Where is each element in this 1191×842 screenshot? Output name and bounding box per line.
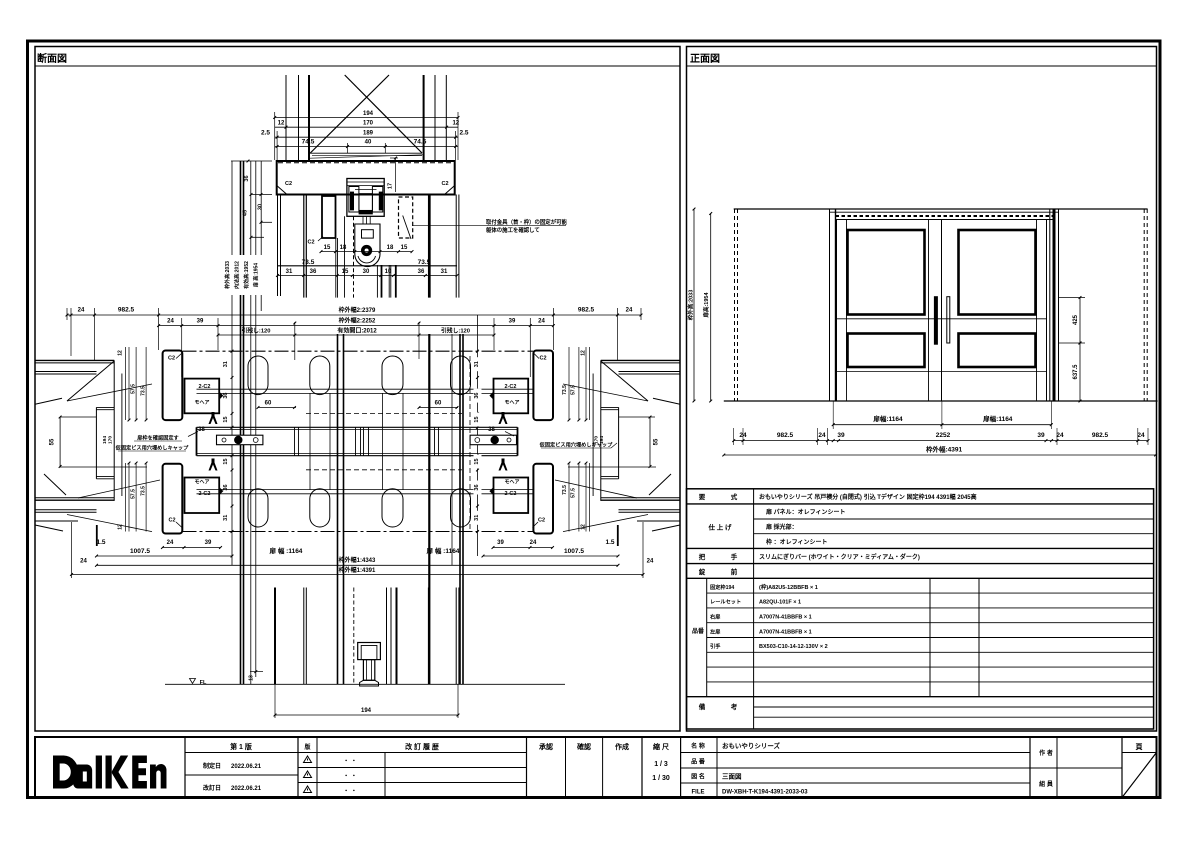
right door upper window bbox=[959, 230, 1036, 315]
svg-text:31: 31 bbox=[286, 269, 293, 275]
svg-text:扉 高:1954: 扉 高:1954 bbox=[253, 263, 260, 288]
right panel (front view) frame bbox=[687, 47, 1157, 732]
svg-text:1.5: 1.5 bbox=[605, 539, 614, 546]
pedestrian glyphs bbox=[209, 412, 218, 424]
svg-text:2.5: 2.5 bbox=[261, 129, 270, 136]
svg-text:有効開口:2012: 有効開口:2012 bbox=[337, 326, 377, 334]
left jamb bbox=[829, 209, 831, 401]
svg-text:枠 ：オレフィンシート: 枠 ：オレフィンシート bbox=[766, 538, 828, 546]
svg-text:982.5: 982.5 bbox=[118, 307, 135, 314]
svg-text:正面図: 正面図 bbox=[690, 53, 720, 65]
svg-text:C2: C2 bbox=[539, 356, 546, 362]
svg-text:170: 170 bbox=[363, 121, 374, 127]
dim 60 right bbox=[419, 407, 458, 409]
svg-text:12: 12 bbox=[452, 121, 459, 127]
svg-text:モヘア: モヘア bbox=[194, 400, 209, 406]
wall studs above head bbox=[285, 75, 287, 161]
svg-text:18: 18 bbox=[387, 245, 394, 251]
svg-text:スリムにぎりバー (ホワイト・クリア・ミディアム・ダーク): スリムにぎりバー (ホワイト・クリア・ミディアム・ダーク) bbox=[759, 553, 920, 561]
svg-text:55: 55 bbox=[50, 438, 56, 445]
svg-text:図 名: 図 名 bbox=[691, 773, 705, 781]
svg-text:17: 17 bbox=[388, 183, 394, 189]
dim 13 bbox=[250, 671, 263, 673]
pocket frame C2 lower-left bbox=[163, 464, 183, 534]
svg-text:57.5: 57.5 bbox=[131, 384, 137, 394]
name/file rows bbox=[681, 752, 1030, 754]
pocket frame C2 upper-left bbox=[163, 351, 183, 421]
svg-text:引残し:120: 引残し:120 bbox=[441, 326, 470, 334]
svg-text:扉 採光部：: 扉 採光部： bbox=[765, 523, 798, 531]
hidden door edges dashed bbox=[306, 413, 462, 415]
chain centerlines bbox=[183, 350, 534, 352]
long verticals center/right bbox=[337, 334, 339, 684]
pocket frame 2-C2 upper-left bbox=[185, 379, 220, 414]
svg-text:枠外幅1:4391: 枠外幅1:4391 bbox=[339, 566, 376, 574]
svg-text:36: 36 bbox=[310, 269, 317, 275]
svg-text:・ ・: ・ ・ bbox=[343, 759, 357, 765]
svg-text:名 称: 名 称 bbox=[691, 742, 705, 750]
svg-text:固定枠194: 固定枠194 bbox=[710, 583, 734, 591]
svg-text:170: 170 bbox=[108, 436, 114, 444]
svg-text:24: 24 bbox=[626, 308, 633, 314]
svg-text:74.5: 74.5 bbox=[414, 139, 427, 146]
svg-text:A82QU-101F × 1: A82QU-101F × 1 bbox=[759, 600, 801, 606]
pocket frame 2-C2 lower-right bbox=[494, 478, 529, 514]
door width dims 1164 bbox=[833, 424, 1051, 426]
svg-text:12: 12 bbox=[581, 524, 587, 530]
dim 1007.5 row bbox=[97, 555, 233, 557]
left height dim chain bbox=[231, 160, 272, 162]
svg-text:C2: C2 bbox=[168, 518, 175, 524]
svg-text:・ ・: ・ ・ bbox=[343, 774, 357, 780]
svg-text:57.5: 57.5 bbox=[571, 385, 577, 395]
svg-text:扉枠を確認固定す: 扉枠を確認固定す bbox=[137, 434, 179, 442]
svg-text:仕 上 げ: 仕 上 げ bbox=[707, 523, 732, 532]
capsules (roller cutouts) upper bbox=[248, 356, 268, 395]
svg-text:24: 24 bbox=[80, 559, 87, 565]
dim 40 / 74.5 bbox=[275, 146, 458, 148]
height dim 1954 bbox=[710, 214, 712, 402]
svg-text:36: 36 bbox=[223, 393, 229, 399]
svg-text:60: 60 bbox=[265, 401, 272, 407]
left pocket end bbox=[113, 360, 115, 501]
dim 17 bbox=[390, 157, 398, 159]
svg-text:手: 手 bbox=[731, 552, 738, 561]
svg-text:C2: C2 bbox=[285, 181, 292, 187]
wall frame dims right (12/57.5/73.5) bbox=[568, 347, 570, 420]
svg-text:189: 189 bbox=[363, 130, 374, 136]
svg-text:982.5: 982.5 bbox=[1092, 432, 1109, 439]
svg-text:24: 24 bbox=[167, 318, 174, 324]
svg-text:15: 15 bbox=[474, 416, 480, 422]
right wall lines bbox=[601, 359, 680, 361]
svg-text:36: 36 bbox=[474, 484, 480, 490]
svg-text:FL: FL bbox=[200, 680, 207, 686]
svg-text:断面図: 断面図 bbox=[37, 52, 67, 65]
svg-text:C2: C2 bbox=[441, 181, 448, 187]
svg-text:15: 15 bbox=[324, 245, 331, 251]
left wall lines bbox=[35, 359, 114, 361]
svg-text:引残し:120: 引残し:120 bbox=[242, 326, 271, 334]
svg-text:12: 12 bbox=[118, 524, 124, 530]
left door lower window bbox=[848, 334, 925, 368]
dim 4391 bbox=[72, 574, 644, 576]
svg-text:モヘア: モヘア bbox=[504, 480, 519, 486]
svg-text:73.5: 73.5 bbox=[141, 486, 147, 496]
svg-text:引手: 引手 bbox=[710, 642, 721, 650]
svg-text:74.5: 74.5 bbox=[302, 139, 315, 146]
right frame member (dashed) bbox=[399, 197, 413, 238]
svg-text:15: 15 bbox=[401, 245, 408, 251]
svg-text:40: 40 bbox=[365, 140, 372, 146]
svg-text:194: 194 bbox=[102, 436, 108, 444]
svg-text:60: 60 bbox=[435, 401, 442, 407]
door stiles in band bbox=[294, 427, 296, 455]
svg-text:考: 考 bbox=[731, 702, 738, 711]
svg-text:39: 39 bbox=[837, 432, 845, 439]
svg-text:作 者: 作 者 bbox=[1039, 749, 1053, 757]
svg-text:2022.06.21: 2022.06.21 bbox=[231, 786, 262, 792]
svg-text:縮 尺: 縮 尺 bbox=[653, 742, 669, 751]
floor line bbox=[724, 400, 1158, 402]
svg-text:24: 24 bbox=[78, 308, 85, 314]
svg-text:枠外高:2033: 枠外高:2033 bbox=[224, 261, 231, 289]
svg-text:左扉: 左扉 bbox=[710, 628, 720, 636]
svg-text:31: 31 bbox=[474, 515, 480, 521]
dim 170 / 12 bbox=[275, 126, 458, 128]
dim extension stubs bbox=[66, 308, 68, 320]
svg-text:30: 30 bbox=[363, 269, 370, 275]
svg-text:24: 24 bbox=[1137, 432, 1145, 439]
svg-text:扉 パネル：オレフィンシート: 扉 パネル：オレフィンシート bbox=[765, 508, 846, 516]
svg-text:36: 36 bbox=[244, 175, 250, 181]
svg-text:レールセット: レールセット bbox=[710, 599, 741, 606]
dim 189 / 2.5 bbox=[275, 136, 458, 138]
svg-text:1 / 30: 1 / 30 bbox=[652, 775, 670, 782]
svg-text:39: 39 bbox=[1037, 432, 1045, 439]
svg-text:制定日: 制定日 bbox=[203, 762, 221, 770]
svg-text:1007.5: 1007.5 bbox=[564, 548, 584, 555]
svg-text:1.5: 1.5 bbox=[96, 539, 105, 546]
dim 60 left bbox=[258, 407, 296, 409]
dim 55 right bbox=[649, 417, 651, 467]
svg-text:24: 24 bbox=[1056, 432, 1064, 439]
svg-text:73.5: 73.5 bbox=[562, 485, 568, 495]
svg-text:モヘア: モヘア bbox=[504, 400, 519, 406]
dim 4343 bbox=[97, 564, 619, 566]
svg-text:24: 24 bbox=[538, 318, 545, 324]
svg-text:扉高:1954: 扉高:1954 bbox=[702, 292, 710, 319]
svg-text:425: 425 bbox=[1073, 314, 1079, 325]
svg-text:18: 18 bbox=[340, 245, 347, 251]
left handle (solid) bbox=[934, 297, 937, 345]
right vertical dim line bbox=[477, 315, 479, 556]
svg-text:15: 15 bbox=[223, 416, 229, 422]
right wall diagonals bbox=[601, 361, 648, 401]
svg-text:版: 版 bbox=[303, 743, 310, 751]
dim extension verticals bbox=[274, 112, 276, 160]
svg-text:扉 幅 :1164: 扉 幅 :1164 bbox=[270, 546, 303, 555]
left pocket aux lines bbox=[60, 416, 96, 418]
elevation opening top line bbox=[734, 208, 1148, 210]
head rail with hatch bbox=[836, 219, 1055, 221]
svg-text:36: 36 bbox=[474, 393, 480, 399]
plan dim row 2 bbox=[159, 325, 554, 327]
left pocket hidden edge (dashed) bbox=[734, 209, 736, 401]
door band horizontals bbox=[197, 426, 518, 428]
svg-text:31: 31 bbox=[223, 515, 229, 521]
verticals below head box bbox=[277, 195, 279, 297]
bottom verticals bbox=[274, 588, 276, 685]
svg-text:57.5: 57.5 bbox=[131, 489, 137, 499]
svg-text:194: 194 bbox=[363, 111, 374, 117]
svg-text:55: 55 bbox=[654, 438, 660, 445]
svg-text:73.5: 73.5 bbox=[141, 386, 147, 396]
svg-text:頁: 頁 bbox=[1136, 743, 1143, 751]
svg-text:24: 24 bbox=[818, 432, 826, 439]
svg-text:前: 前 bbox=[731, 567, 738, 576]
dim row 31 36 15 30 10 36 31 bbox=[278, 275, 458, 277]
svg-text:躯体の施工を確認して: 躯体の施工を確認して bbox=[485, 226, 540, 234]
svg-text:右扉: 右扉 bbox=[710, 613, 720, 621]
capsule connector verticals bbox=[309, 393, 311, 490]
svg-text:36: 36 bbox=[223, 484, 229, 490]
FL line bbox=[165, 683, 565, 685]
svg-text:2252: 2252 bbox=[936, 432, 951, 439]
svg-text:備: 備 bbox=[699, 702, 706, 711]
left door leaf bbox=[837, 220, 942, 402]
svg-text:12: 12 bbox=[118, 350, 124, 356]
latch plate left bbox=[217, 435, 263, 445]
svg-text:2-C2: 2-C2 bbox=[199, 384, 211, 390]
pocket frame 2-C2 upper-right bbox=[494, 379, 529, 414]
svg-text:15: 15 bbox=[342, 269, 349, 275]
svg-text:改訂日: 改訂日 bbox=[203, 784, 221, 792]
left panel (section view) frame bbox=[35, 47, 680, 732]
svg-text:637.5: 637.5 bbox=[1073, 364, 1079, 380]
chamfer right C2 bbox=[445, 186, 455, 195]
band rotated dim chain left bbox=[231, 350, 234, 353]
hanger bolt / roller bbox=[355, 224, 380, 267]
svg-text:982.5: 982.5 bbox=[777, 432, 794, 439]
right pocket aux lines bbox=[619, 416, 655, 418]
track lines lower bbox=[197, 489, 534, 491]
svg-text:31: 31 bbox=[441, 269, 448, 275]
svg-text:扉幅:1164: 扉幅:1164 bbox=[983, 414, 1013, 423]
svg-text:(枠)A82U5-12BBFB × 1: (枠)A82U5-12BBFB × 1 bbox=[759, 583, 818, 591]
svg-text:承認: 承認 bbox=[539, 742, 553, 751]
svg-text:194: 194 bbox=[361, 708, 372, 714]
dim 425 bbox=[1059, 297, 1086, 299]
svg-text:39: 39 bbox=[497, 540, 504, 546]
svg-text:39: 39 bbox=[509, 318, 516, 324]
svg-text:枠外幅2:2252: 枠外幅2:2252 bbox=[339, 317, 376, 325]
svg-text:おもいやりシリーズ: おもいやりシリーズ bbox=[722, 741, 781, 750]
svg-text:38: 38 bbox=[488, 427, 495, 433]
hanger rail assembly bbox=[347, 179, 384, 217]
left door upper window bbox=[848, 230, 925, 315]
svg-text:改 訂 履 歴: 改 訂 履 歴 bbox=[405, 742, 439, 751]
svg-text:組 員: 組 員 bbox=[1039, 780, 1053, 788]
pocket frame C2 upper-right bbox=[533, 351, 553, 421]
svg-text:モヘア: モヘア bbox=[194, 480, 209, 486]
svg-text:仮固定ビス用穴埋めしキャップ: 仮固定ビス用穴埋めしキャップ bbox=[115, 444, 189, 452]
svg-text:C2: C2 bbox=[538, 518, 545, 524]
svg-text:30: 30 bbox=[258, 204, 264, 210]
svg-text:・ ・: ・ ・ bbox=[343, 789, 357, 795]
right handle (outline) bbox=[947, 297, 950, 343]
pocket frame C2 lower-right bbox=[533, 464, 553, 534]
svg-text:2022.06.21: 2022.06.21 bbox=[231, 764, 262, 770]
svg-text:C2: C2 bbox=[168, 356, 175, 362]
title block frame bbox=[35, 737, 1157, 798]
svg-text:枠外幅2:2379: 枠外幅2:2379 bbox=[339, 306, 376, 314]
svg-text:38: 38 bbox=[198, 427, 205, 433]
svg-text:10: 10 bbox=[385, 269, 392, 275]
dims 15 18 18 15 bbox=[321, 251, 412, 253]
left frame member (rounded) bbox=[322, 196, 336, 238]
svg-text:39: 39 bbox=[197, 318, 204, 324]
svg-text:C2: C2 bbox=[307, 240, 314, 246]
head box bbox=[277, 161, 455, 195]
svg-text:31: 31 bbox=[474, 361, 480, 367]
height dim 2033 bbox=[693, 209, 695, 401]
band rotated dim chain right bbox=[476, 350, 479, 353]
svg-text:要: 要 bbox=[699, 492, 706, 501]
right pocket end bbox=[600, 360, 602, 501]
rotated height labels bbox=[224, 255, 264, 295]
svg-text:把: 把 bbox=[699, 552, 706, 561]
spec table bbox=[687, 489, 1154, 729]
X cross brace bbox=[345, 75, 422, 153]
svg-text:13: 13 bbox=[249, 675, 255, 681]
pocket frame 2-C2 lower-left bbox=[185, 478, 220, 514]
svg-text:24: 24 bbox=[530, 540, 537, 546]
svg-text:1007.5: 1007.5 bbox=[130, 548, 150, 555]
DAIKEN logo bbox=[53, 756, 166, 789]
svg-text:第 1 版: 第 1 版 bbox=[230, 742, 252, 751]
capsules lower bbox=[248, 489, 268, 527]
svg-text:品番: 品番 bbox=[692, 627, 705, 635]
svg-text:枠外幅1:4343: 枠外幅1:4343 bbox=[339, 556, 376, 564]
svg-text:有効高:1952: 有効高:1952 bbox=[243, 261, 250, 289]
svg-text:錠: 錠 bbox=[699, 567, 706, 576]
svg-text:式: 式 bbox=[731, 492, 738, 501]
svg-text:A7007N-41BBFB × 1: A7007N-41BBFB × 1 bbox=[759, 630, 812, 636]
dim 637.5 bbox=[1079, 343, 1081, 401]
svg-text:39: 39 bbox=[205, 540, 212, 546]
plan top dim row 1 bbox=[67, 314, 641, 316]
svg-text:24: 24 bbox=[647, 559, 654, 565]
dim 55 left bbox=[59, 417, 61, 467]
svg-text:2-C2: 2-C2 bbox=[505, 491, 517, 497]
left wall diagonals bbox=[67, 361, 114, 401]
svg-text:36: 36 bbox=[418, 269, 425, 275]
svg-text:三面図: 三面図 bbox=[722, 772, 742, 781]
floor guide detail bbox=[358, 643, 381, 660]
svg-text:24: 24 bbox=[167, 540, 174, 546]
svg-text:作成: 作成 bbox=[615, 742, 629, 751]
right jamb thick bbox=[1049, 209, 1051, 401]
svg-text:DW-XBH-T-K194-4391-2033-03: DW-XBH-T-K194-4391-2033-03 bbox=[722, 790, 808, 796]
left door rail lines bbox=[837, 318, 942, 320]
svg-text:57.5: 57.5 bbox=[571, 488, 577, 498]
track lines upper bbox=[197, 388, 534, 390]
svg-text:31: 31 bbox=[223, 361, 229, 367]
svg-text:45: 45 bbox=[243, 210, 249, 216]
svg-text:15: 15 bbox=[223, 458, 229, 464]
svg-text:15: 15 bbox=[474, 458, 480, 464]
svg-text:2-C2: 2-C2 bbox=[199, 491, 211, 497]
svg-text:982.5: 982.5 bbox=[578, 307, 595, 314]
right door lower window bbox=[959, 334, 1036, 368]
right pocket hidden edge (dashed) bbox=[1143, 209, 1145, 401]
dim 194 bottom bbox=[274, 684, 276, 718]
total width dim 4391 bbox=[724, 454, 1156, 456]
plan dim row 3 bbox=[218, 334, 494, 336]
svg-text:73.5: 73.5 bbox=[562, 385, 568, 395]
svg-text:12: 12 bbox=[581, 350, 587, 356]
right door rail lines bbox=[942, 318, 1047, 320]
svg-text:仮固定ビス用穴埋めしキャップ: 仮固定ビス用穴埋めしキャップ bbox=[539, 441, 613, 449]
svg-text:2.5: 2.5 bbox=[459, 129, 468, 136]
bottom extension verticals bbox=[71, 522, 73, 578]
svg-text:内法高:2012: 内法高:2012 bbox=[234, 261, 241, 289]
wall frame dims left (12/57.5/73.5) bbox=[125, 347, 127, 420]
latch plate right bbox=[470, 435, 516, 445]
leader + note text bbox=[412, 225, 566, 227]
svg-text:BX503-C10-14-12-130V × 2: BX503-C10-14-12-130V × 2 bbox=[759, 644, 828, 650]
svg-text:FILE: FILE bbox=[692, 790, 705, 796]
pocket mouth verticals bbox=[196, 427, 198, 455]
svg-text:おもいやりシリーズ 吊戸襖分 (自閉式) 引込 Tデザイ: おもいやりシリーズ 吊戸襖分 (自閉式) 引込 Tデザイン 固定枠194 439… bbox=[759, 493, 977, 501]
svg-text:73.5: 73.5 bbox=[418, 259, 431, 266]
svg-text:扉 幅 :1164: 扉 幅 :1164 bbox=[427, 546, 460, 555]
svg-text:2-C2: 2-C2 bbox=[505, 384, 517, 390]
svg-text:枠外幅:4391: 枠外幅:4391 bbox=[926, 445, 963, 454]
svg-text:1 / 3: 1 / 3 bbox=[654, 761, 668, 768]
svg-text:73.5: 73.5 bbox=[302, 259, 315, 266]
section bottom line bbox=[278, 265, 458, 267]
dim 194 bbox=[275, 117, 458, 119]
bottom dim row 24/982.5/24/39/2252/39/24/982.5/24 bbox=[734, 440, 1148, 442]
right door leaf bbox=[942, 220, 1047, 402]
bottom dim rows of plan bbox=[163, 547, 221, 549]
svg-text:品 番: 品 番 bbox=[691, 758, 706, 766]
svg-text:確認: 確認 bbox=[577, 742, 591, 751]
svg-text:枠外高:2033: 枠外高:2033 bbox=[687, 290, 695, 322]
svg-text:12: 12 bbox=[278, 121, 285, 127]
svg-text:A7007N-41BBFB × 1: A7007N-41BBFB × 1 bbox=[759, 615, 812, 621]
svg-text:扉幅:1164: 扉幅:1164 bbox=[873, 414, 903, 423]
chamfer left C2 bbox=[277, 186, 287, 195]
svg-text:取付金具（首・枠）の固定が可能: 取付金具（首・枠）の固定が可能 bbox=[486, 218, 567, 226]
